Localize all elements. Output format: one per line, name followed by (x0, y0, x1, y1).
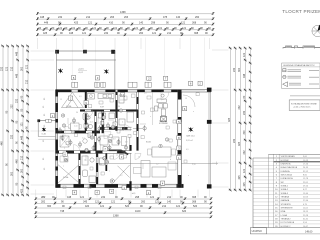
svg-text:20,53: 20,53 (303, 196, 309, 198)
room number circles (61, 114, 64, 117)
svg-text:SOBA 3: SOBA 3 (281, 192, 289, 195)
svg-text:12: 12 (138, 157, 140, 159)
left exterior wall (double line) (55, 90, 57, 188)
svg-text:15: 15 (103, 125, 105, 127)
interior wall vertical x~95 (94, 111, 96, 150)
svg-text:BLAGOVAONICA: BLAGOVAONICA (281, 166, 298, 169)
legend row 1: square symbol (283, 69, 286, 72)
faint text row above note box (290, 95, 320, 97)
svg-text:300: 300 (10, 171, 13, 176)
svg-text:25,28: 25,28 (303, 215, 309, 217)
left dimension block (2, 46, 4, 195)
svg-text:425: 425 (243, 182, 246, 187)
svg-text:2,10: 2,10 (192, 164, 196, 166)
svg-text:121: 121 (5, 66, 8, 71)
svg-text:300: 300 (238, 67, 241, 72)
svg-text:232: 232 (0, 66, 3, 71)
svg-text:232: 232 (104, 32, 109, 35)
table summary box UKUPNO (250, 228, 266, 234)
note box (289, 100, 320, 111)
svg-text:121: 121 (92, 27, 97, 30)
interior wall A (y~110) (80, 109, 138, 111)
duct wall x~102.8 (101, 111, 103, 133)
svg-text:121: 121 (181, 21, 186, 24)
svg-text:263: 263 (124, 16, 129, 19)
svg-text:121: 121 (88, 21, 93, 24)
thick underline row2 (274, 161, 320, 163)
graphic scale bar (283, 46, 320, 48)
svg-text:101: 101 (113, 27, 118, 30)
svg-text:+0,00 = 78,60 mnm: +0,00 = 78,60 mnm (293, 106, 311, 108)
svg-text:420: 420 (85, 205, 90, 208)
svg-text:WC: WC (281, 182, 285, 184)
svg-text:232: 232 (58, 16, 63, 19)
svg-text:121: 121 (152, 32, 157, 35)
svg-text:101: 101 (71, 27, 76, 30)
svg-text:KUH: KUH (100, 107, 105, 109)
svg-text:1,2: 1,2 (156, 164, 159, 166)
svg-text:121: 121 (134, 27, 139, 30)
svg-text:232: 232 (243, 150, 246, 155)
svg-text:0,9: 0,9 (186, 149, 189, 151)
svg-text:DNEVNI B.: DNEVNI B. (281, 163, 292, 165)
svg-text:282: 282 (41, 200, 46, 203)
svg-text:STUBISTE: STUBISTE (281, 204, 292, 206)
svg-text:360: 360 (47, 205, 52, 208)
svg-text:x: x (99, 109, 100, 111)
misc interior clutter marks (89, 105, 92, 108)
interior wall B2 (y~128) hall part (100, 126, 132, 128)
svg-text:425: 425 (238, 175, 241, 180)
X marks bedroom bottom-left (58, 164, 80, 183)
svg-text:121: 121 (176, 205, 181, 208)
svg-text:90: 90 (100, 164, 102, 166)
svg-text:520: 520 (125, 205, 130, 208)
svg-text:15: 15 (84, 160, 86, 162)
ceiling light symbol terrace right (104, 69, 109, 74)
svg-text:448: 448 (67, 196, 72, 199)
svg-text:212: 212 (167, 32, 172, 35)
svg-text:232: 232 (238, 105, 241, 110)
svg-text:17,26: 17,26 (303, 163, 309, 165)
svg-text:298: 298 (151, 21, 156, 24)
svg-text:22,01: 22,01 (303, 182, 309, 184)
top dimension block (38, 13, 214, 15)
top wall black segments (56, 90, 72, 92)
svg-text:368: 368 (192, 196, 197, 199)
interior wall vertical x~106 (105, 153, 107, 171)
svg-text:425: 425 (43, 32, 48, 35)
svg-text:121: 121 (155, 200, 160, 203)
door swing arcs (86, 111, 93, 118)
svg-text:BORAVAK: BORAVAK (159, 122, 169, 125)
svg-text:KOTLOVNICA: KOTLOVNICA (281, 221, 295, 224)
svg-text:TLOCRT PRIZEMLJA: TLOCRT PRIZEMLJA (282, 9, 320, 14)
right dimension block (230, 48, 232, 190)
svg-text:140: 140 (167, 200, 172, 203)
svg-text:0,9: 0,9 (125, 142, 128, 144)
svg-text:232: 232 (101, 196, 106, 199)
svg-text:748: 748 (60, 210, 65, 213)
bottom dimension block (36, 198, 211, 200)
label squares above top wall (72, 76, 76, 80)
wall stub x~85.8 (85, 92, 87, 108)
entrance porch left side (38, 119, 55, 121)
svg-text:UKUPNO: UKUPNO (252, 230, 262, 233)
svg-text:15: 15 (60, 99, 62, 101)
interior wall vertical x~116 (115, 92, 117, 131)
svg-text:263: 263 (110, 16, 115, 19)
svg-text:9,81 m2: 9,81 m2 (186, 140, 193, 142)
interior label squares (84, 101, 88, 105)
svg-text:232: 232 (15, 98, 18, 103)
svg-text:1,2: 1,2 (82, 138, 85, 140)
svg-text:368: 368 (192, 21, 197, 24)
svg-text:300: 300 (243, 130, 246, 135)
interior wall B (y~131) left part (56, 130, 101, 132)
svg-text:368: 368 (192, 200, 197, 203)
svg-text:0,9: 0,9 (113, 139, 116, 141)
svg-text:368: 368 (194, 32, 199, 35)
wardrobe rects bedroom (60, 156, 68, 162)
svg-text:425: 425 (228, 117, 231, 122)
svg-text:27,66: 27,66 (303, 200, 309, 202)
svg-text:1,2: 1,2 (120, 175, 123, 177)
left wall black segments (56, 90, 58, 97)
svg-text:212: 212 (167, 196, 172, 199)
svg-text:121: 121 (25, 64, 28, 69)
living room inner line (98, 162, 178, 164)
svg-text:KUHINJA: KUHINJA (281, 170, 291, 173)
interior wall vertical x~79 (bedrooms) (78, 153, 80, 184)
svg-text:TERASA 2: TERASA 2 (281, 217, 292, 220)
svg-text:212: 212 (86, 16, 91, 19)
garage separation wall (thick, mostly solid) (177, 90, 179, 188)
bath2 fixtures bottom (82, 156, 88, 165)
svg-text:HODNIK 2: HODNIK 2 (281, 226, 292, 228)
svg-text:a: a (64, 148, 65, 150)
svg-text:121: 121 (182, 27, 187, 30)
main top exterior wall (double line) (56, 89, 212, 91)
svg-text:410: 410 (109, 21, 114, 24)
svg-text:121: 121 (95, 200, 100, 203)
legend box (282, 63, 320, 89)
svg-text:260: 260 (195, 16, 200, 19)
garage light spider (188, 127, 193, 132)
terrace slab edge (56, 59, 116, 61)
pergola canopy line with columns (56, 50, 114, 52)
svg-text:232: 232 (233, 138, 236, 143)
svg-text:24,39: 24,39 (303, 167, 309, 169)
svg-text:260: 260 (139, 32, 144, 35)
stair-down diagonals (114, 165, 129, 182)
svg-text:448: 448 (20, 135, 23, 140)
svg-text:TERASA: TERASA (281, 195, 290, 198)
svg-text:140: 140 (176, 16, 181, 19)
svg-text:425: 425 (238, 141, 241, 146)
svg-text:KUPAONICA: KUPAONICA (281, 177, 294, 180)
svg-text:BLAG: BLAG (146, 141, 152, 144)
svg-text:x: x (109, 171, 110, 173)
svg-text:GARAZA: GARAZA (281, 199, 290, 202)
svg-text:b: b (122, 122, 123, 124)
svg-text:448: 448 (15, 73, 18, 78)
svg-text:0,9: 0,9 (79, 96, 82, 98)
svg-text:300: 300 (20, 168, 23, 173)
svg-text:x: x (63, 166, 64, 168)
svg-text:425: 425 (20, 188, 23, 193)
svg-text:b: b (170, 159, 171, 161)
garage door arc (183, 95, 195, 107)
legend row 3: triangle symbol (283, 82, 288, 87)
triangle mark room top-left (62, 92, 84, 107)
bottom wall black segments (56, 184, 61, 187)
svg-text:KOTA NADMORSKE VISINE: KOTA NADMORSKE VISINE (291, 102, 317, 105)
svg-text:SOBA: SOBA (63, 176, 69, 179)
svg-text:232: 232 (233, 67, 236, 72)
svg-text:212: 212 (20, 155, 23, 160)
svg-text:32,41: 32,41 (303, 218, 309, 220)
svg-text:448: 448 (15, 51, 18, 56)
interior wall vertical x~130.5 (living edge) (129, 145, 131, 151)
svg-text:121: 121 (80, 196, 85, 199)
legend row 2: circle symbol (283, 75, 286, 78)
svg-text:IZBA: IZBA (281, 210, 286, 213)
boiler circle (110, 179, 114, 183)
svg-text:a: a (193, 111, 194, 113)
svg-text:SMOCNICA: SMOCNICA (281, 173, 293, 176)
svg-text:1368: 1368 (120, 11, 126, 14)
circle-with-stem symbols (fixtures) (61, 135, 64, 141)
svg-text:15: 15 (185, 98, 187, 100)
svg-text:LOGIA: LOGIA (281, 214, 288, 217)
interior wall C (y~151) (56, 150, 132, 152)
leader circle right of hall wall (133, 127, 143, 129)
svg-text:SOBA 1: SOBA 1 (281, 184, 289, 187)
svg-text:x: x (188, 175, 189, 177)
svg-text:475: 475 (163, 16, 168, 19)
svg-text:15,78: 15,78 (303, 178, 309, 180)
svg-text:448: 448 (44, 21, 49, 24)
stair handrail elbow (bold) (109, 150, 129, 154)
svg-text:212: 212 (10, 66, 13, 71)
svg-text:121: 121 (100, 205, 105, 208)
bottom exterior wall (double line) (56, 183, 184, 185)
svg-text:2,10: 2,10 (74, 126, 78, 128)
svg-text:VJETROBRAN: VJETROBRAN (281, 155, 295, 158)
chimney box with X (161, 116, 167, 121)
bath fixtures row1 (83, 113, 88, 120)
svg-text:345: 345 (83, 200, 88, 203)
svg-text:212: 212 (162, 205, 167, 208)
ceiling light symbol (spider) terrace left (58, 68, 63, 73)
svg-text:520: 520 (193, 205, 198, 208)
svg-text:x: x (150, 116, 151, 118)
svg-text:232: 232 (10, 134, 13, 139)
svg-text:1100: 1100 (135, 210, 141, 213)
svg-text:2.4: 2.4 (144, 93, 147, 95)
carport step line (181, 162, 218, 164)
svg-text:121: 121 (243, 168, 246, 173)
svg-text:232: 232 (243, 110, 246, 115)
kitchen counters (87, 94, 94, 100)
svg-text:300: 300 (20, 66, 23, 71)
svg-text:0,9: 0,9 (63, 135, 66, 137)
svg-text:31,52: 31,52 (303, 171, 309, 173)
corridor fixtures row2 (60, 136, 69, 147)
svg-text:620: 620 (182, 210, 187, 213)
svg-text:SOBA: SOBA (66, 105, 72, 108)
svg-text:448: 448 (0, 141, 3, 146)
svg-text:121: 121 (243, 52, 246, 57)
svg-text:148,60: 148,60 (305, 231, 313, 234)
window label squares below bottom wall (72, 190, 76, 194)
svg-text:121: 121 (150, 196, 155, 199)
interior wall vertical x~137 (136, 92, 138, 151)
svg-text:1368: 1368 (113, 214, 119, 217)
central fixture cluster (island/stove) (151, 92, 153, 125)
svg-text:121: 121 (82, 32, 87, 35)
svg-text:90: 90 (76, 112, 78, 114)
svg-text:140: 140 (139, 21, 144, 24)
svg-text:121: 121 (20, 122, 23, 127)
extension line stubs (37, 38, 39, 49)
svg-text:448: 448 (40, 16, 45, 19)
svg-text:GAR 15,0: GAR 15,0 (186, 135, 196, 138)
casement window symbols above top wall (72, 82, 78, 87)
svg-text:121: 121 (58, 27, 63, 30)
svg-text:448: 448 (243, 73, 246, 78)
interior wall vertical x~97 (bath) (95, 153, 97, 184)
svg-text:425: 425 (74, 21, 79, 24)
room schedule table (269, 153, 320, 155)
svg-text:13,40: 13,40 (303, 193, 309, 195)
svg-text:260: 260 (141, 200, 146, 203)
svg-text:16,67: 16,67 (303, 226, 309, 228)
right open edge with columns (208, 88, 210, 188)
svg-text:29,14: 29,14 (303, 185, 309, 187)
svg-text:18,15: 18,15 (303, 211, 309, 213)
svg-text:121: 121 (111, 200, 116, 203)
north arrow symbol (312, 25, 320, 36)
svg-text:232: 232 (10, 104, 13, 109)
svg-text:SOBA 2: SOBA 2 (281, 188, 289, 191)
svg-text:448: 448 (15, 159, 18, 164)
svg-text:212: 212 (25, 79, 28, 84)
svg-text:101: 101 (158, 27, 163, 30)
svg-text:448: 448 (69, 32, 74, 35)
svg-text:298: 298 (135, 196, 140, 199)
living furniture (152, 147, 171, 157)
svg-text:-0,02: -0,02 (78, 72, 84, 74)
svg-text:2.4: 2.4 (90, 122, 93, 124)
svg-text:90: 90 (118, 106, 120, 108)
svg-text:SPREMISTE: SPREMISTE (281, 207, 294, 209)
